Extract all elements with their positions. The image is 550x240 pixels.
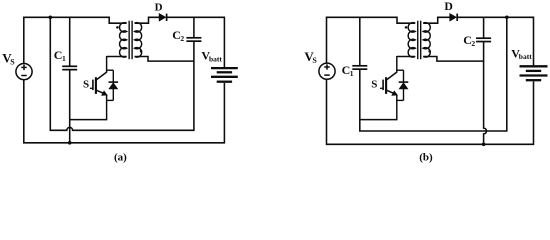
svg-text:D: D [444,0,452,13]
svg-text:(b): (b) [419,152,433,164]
svg-text:S: S [312,56,317,65]
svg-text:1: 1 [62,54,66,63]
svg-text:batt: batt [209,54,222,63]
svg-text:1: 1 [350,69,354,78]
svg-text:S: S [10,58,15,67]
svg-text:2: 2 [180,34,184,43]
svg-text:2: 2 [471,39,475,48]
svg-text:batt: batt [519,52,532,61]
svg-text:S: S [371,79,377,91]
svg-text:S: S [83,79,89,91]
svg-text:D: D [155,1,163,13]
svg-text:(a): (a) [114,151,127,163]
